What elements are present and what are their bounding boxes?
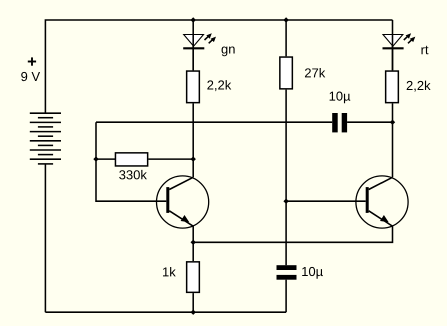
wire bottom rail <box>45 311 286 313</box>
label R1 2,2k <box>207 80 231 91</box>
wire R4 top stub <box>192 242 194 261</box>
transistor Q2 <box>356 176 408 228</box>
wire rt branch from top rail into LED D2 <box>392 20 394 70</box>
label gn <box>222 47 235 57</box>
wire 330k right stub <box>148 158 193 160</box>
wire C2 bottom to bottom rail <box>285 280 287 313</box>
label R4 1k <box>163 267 176 276</box>
wire gn branch from top rail into LED D1 <box>192 20 194 70</box>
wire gn branch R1 bottom to Q1 collector <box>192 103 194 177</box>
wire Q2 base <box>286 200 366 202</box>
label R3 330k <box>119 170 147 180</box>
wire coupling row left of C1 <box>96 121 332 123</box>
label rt <box>421 46 428 55</box>
junction C1 right / rt branch <box>390 120 395 125</box>
wire coupling row right of C1 <box>347 121 392 123</box>
wire mid branch R2 bottom to C2 top <box>285 90 287 266</box>
junction bottom rail / R4 bottom <box>191 310 196 315</box>
wire top rail and left rail from battery plus <box>45 20 392 113</box>
resistor R4 1k <box>187 262 200 293</box>
wire 330k left stub <box>96 158 116 160</box>
junction 330k left / base drop <box>93 156 98 161</box>
label C1 10µ <box>330 92 351 104</box>
junction emitter rail / R4 top <box>191 240 196 245</box>
junction 330k right / collector line <box>191 156 196 161</box>
wire D2 cathode to R5 <box>392 48 394 70</box>
label C2 10µ <box>302 267 323 279</box>
resistor R1 2,2k <box>187 71 200 103</box>
wire D1 cathode to R1 <box>192 48 194 70</box>
wire Q1 emitter drop <box>192 226 194 242</box>
capacitor C2 10µ <box>277 265 297 279</box>
wire emitter rail to Q2 emitter <box>193 226 392 242</box>
junction top rail / 27k branch <box>283 17 288 22</box>
transistor Q1 <box>157 176 209 228</box>
wire battery minus to bottom rail <box>44 164 46 312</box>
wire mid branch top rail to R2 <box>285 20 287 56</box>
resistor R2 27k <box>280 57 293 89</box>
resistor R3 330k <box>115 153 147 166</box>
junction top rail / gn branch <box>191 17 196 22</box>
battery value label 9 V <box>21 72 40 81</box>
label R5 2,2k <box>407 81 431 92</box>
battery B1 <box>30 113 61 164</box>
wire R4 bottom stub <box>192 293 194 312</box>
resistor R5 2,2k <box>386 71 399 103</box>
junction Q2 base / 27k line <box>283 199 288 204</box>
wire left drop to Q1 base <box>96 122 166 201</box>
label R2 27k <box>305 68 325 77</box>
LED D1 gn <box>183 33 216 48</box>
battery plus sign <box>28 57 36 65</box>
capacitor C1 10µ <box>332 113 347 132</box>
wire rt branch R5 bottom to Q2 collector <box>392 103 394 177</box>
LED D2 rt <box>383 33 416 48</box>
